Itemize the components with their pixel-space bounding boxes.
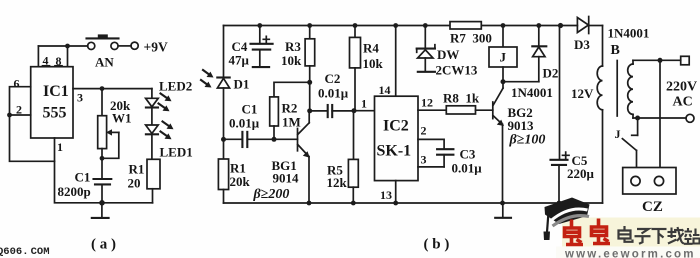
relay contact J switch xyxy=(615,118,638,168)
svg-text:10k: 10k xyxy=(363,56,384,71)
svg-text:Q606. COM: Q606. COM xyxy=(0,246,50,258)
wire W1 top xyxy=(101,89,103,116)
label 220V AC xyxy=(666,80,697,110)
node switch branch junction xyxy=(635,116,640,121)
svg-text:IC2: IC2 xyxy=(383,118,409,135)
svg-text:3: 3 xyxy=(77,91,83,105)
node R2/C1/base junction xyxy=(272,137,277,142)
node collector/C2 junction xyxy=(307,108,312,113)
capacitor C4 47u xyxy=(229,23,273,67)
svg-text:12V: 12V xyxy=(571,86,594,101)
svg-text:D2: D2 xyxy=(543,66,559,81)
capacitor C2 0.01u xyxy=(310,71,354,117)
CIRCUIT-B-MID xyxy=(327,22,578,206)
svg-text:6: 6 xyxy=(14,77,20,91)
svg-text:J: J xyxy=(615,127,621,141)
wire IC2 pin1 xyxy=(354,97,375,111)
svg-text:C1: C1 xyxy=(242,102,258,117)
wire W1 bottom xyxy=(101,149,103,179)
wire 220V top lead xyxy=(633,59,681,61)
svg-text:R4: R4 xyxy=(363,41,379,56)
LED LED2 xyxy=(146,79,193,125)
svg-text:555: 555 xyxy=(43,105,67,122)
resistor R1 20k (b) xyxy=(218,139,250,203)
wire IC2 pin3 xyxy=(418,153,444,167)
node BG2 emitter ground junction xyxy=(500,201,505,206)
svg-text:2CW13: 2CW13 xyxy=(436,63,478,78)
node R3 bottom junction xyxy=(307,80,312,85)
svg-text:R7 300: R7 300 xyxy=(450,31,492,46)
label (a) xyxy=(91,237,116,253)
svg-text:LED1: LED1 xyxy=(160,145,193,160)
svg-text:AN: AN xyxy=(95,55,114,70)
svg-text:1N4001: 1N4001 xyxy=(511,85,553,100)
node top rail junction (a) xyxy=(65,44,70,49)
svg-text:10k: 10k xyxy=(281,53,302,68)
node W1 wiper junction xyxy=(100,156,105,161)
wire bottom rail (b) xyxy=(224,202,603,204)
resistor R3 10k xyxy=(281,23,315,82)
svg-text:47μ: 47μ xyxy=(229,53,250,68)
svg-text:220V: 220V xyxy=(666,80,697,95)
resistor R8 1k xyxy=(443,91,493,115)
wire left rail down xyxy=(10,115,55,161)
svg-text:0.01μ: 0.01μ xyxy=(318,86,349,101)
LED1 light arrows xyxy=(161,122,174,140)
svg-text:CZ: CZ xyxy=(642,199,663,215)
svg-text:3: 3 xyxy=(421,153,427,167)
wire pin8 drop xyxy=(67,46,69,67)
svg-text:R3: R3 xyxy=(285,39,301,54)
wire LED branch top xyxy=(151,89,153,98)
svg-text:1M: 1M xyxy=(282,115,301,130)
wire top rail (b) left part xyxy=(224,25,453,27)
node pin13 rail junction xyxy=(393,201,398,206)
wire left edge drop to D1 xyxy=(223,26,225,78)
CIRCUIT-B-RIGHT xyxy=(424,17,698,253)
svg-text:1: 1 xyxy=(361,97,367,111)
svg-text:β≥200: β≥200 xyxy=(253,187,290,202)
wire pin6 xyxy=(10,77,31,116)
svg-text:1N4001: 1N4001 xyxy=(608,26,650,41)
wire button to terminal xyxy=(118,45,131,47)
terminal square 220V top xyxy=(681,56,690,65)
watermark strip background xyxy=(556,218,700,258)
svg-text:12k: 12k xyxy=(327,175,348,190)
watermark chongchong char1 xyxy=(565,220,584,245)
resistor R4 10k xyxy=(350,23,384,111)
watermark www.eeworm.com xyxy=(564,249,696,258)
CIRCUIT-B-LEFT xyxy=(201,23,603,205)
svg-text:W1: W1 xyxy=(112,111,132,126)
svg-text:2: 2 xyxy=(421,124,427,138)
svg-text:LED2: LED2 xyxy=(159,79,192,94)
svg-text:C1: C1 xyxy=(75,170,91,185)
svg-text:J: J xyxy=(500,50,507,65)
ground (a) xyxy=(92,203,109,218)
potentiometer W1 20k xyxy=(98,98,132,158)
terminal circle 220V bottom xyxy=(686,114,694,122)
svg-text:+9V: +9V xyxy=(144,40,168,55)
svg-text:SK-1: SK-1 xyxy=(377,143,412,160)
wire J junction to D2 xyxy=(503,81,539,83)
svg-text:β≥100: β≥100 xyxy=(509,133,546,148)
node R5 rail junction xyxy=(351,201,356,206)
wire top rail (a) xyxy=(38,45,87,47)
svg-text:20: 20 xyxy=(128,176,141,191)
node 220V top junction xyxy=(658,58,663,63)
svg-text:DW: DW xyxy=(437,47,459,62)
D1 light arrows xyxy=(201,70,214,88)
watermark char xia xyxy=(652,229,667,244)
svg-text:20k: 20k xyxy=(230,174,251,189)
relay coil J xyxy=(489,23,517,82)
wire R3 junction down to collector xyxy=(309,82,311,111)
wire pin1 xyxy=(55,138,153,203)
wire pin3 xyxy=(73,89,152,105)
terminal +9V xyxy=(131,40,168,55)
wire CZ right branch xyxy=(659,60,661,167)
svg-text:R1: R1 xyxy=(129,162,145,177)
pin 4 label xyxy=(43,54,50,68)
node R4/C2/R5/pin1 junction xyxy=(352,108,357,113)
resistor R7 300 xyxy=(450,22,492,46)
svg-text:14: 14 xyxy=(379,83,391,97)
resistor R5 12k xyxy=(327,111,359,203)
svg-text:13: 13 xyxy=(380,188,392,202)
svg-text:C2: C2 xyxy=(325,71,341,86)
wire top rail (b) right part xyxy=(481,25,577,27)
watermark Q606.COM xyxy=(0,246,50,258)
node C5 rail junction xyxy=(557,201,562,206)
capacitor C1 0.01u (b) xyxy=(224,102,298,148)
capacitor C5 220u xyxy=(551,26,595,204)
WATERMARKS xyxy=(544,198,700,258)
socket CZ xyxy=(623,168,676,216)
label (b) xyxy=(424,237,450,253)
pushbutton AN xyxy=(87,34,119,69)
svg-text:9013: 9013 xyxy=(508,118,535,133)
op-amp IC1 555 box xyxy=(31,67,73,138)
transformer secondary 220V xyxy=(628,60,633,118)
wire 220V bottom lead xyxy=(633,117,686,119)
LED LED1 xyxy=(146,125,193,160)
svg-text:IC1: IC1 xyxy=(43,83,69,100)
diode D2 1N4001 xyxy=(511,23,558,100)
svg-text:www.eeworm.com: www.eeworm.com xyxy=(564,249,696,258)
wire IC2 pin14 xyxy=(379,23,399,97)
wire pin2 xyxy=(10,103,31,117)
resistor R2 1M xyxy=(270,97,301,139)
CIRCUIT-A xyxy=(0,34,193,258)
svg-text:R2: R2 xyxy=(282,101,298,116)
wire IC2 pin2 xyxy=(418,124,444,150)
watermark char zhan xyxy=(684,228,700,244)
svg-text:( a ): ( a ) xyxy=(91,237,116,253)
svg-text:2: 2 xyxy=(16,103,22,117)
wire IC2 pin13 xyxy=(380,181,396,203)
svg-text:B: B xyxy=(611,43,620,58)
node pin2 left junction xyxy=(7,113,12,118)
svg-text:220μ: 220μ xyxy=(567,166,595,181)
watermark char dian xyxy=(619,226,633,242)
svg-text:C3: C3 xyxy=(460,147,476,162)
svg-text:D1: D1 xyxy=(234,77,250,92)
watermark graduation cap xyxy=(544,198,590,241)
watermark char zai xyxy=(668,227,685,244)
wire pin4 drop xyxy=(37,46,39,67)
svg-text:( b ): ( b ) xyxy=(424,237,450,253)
svg-text:AC: AC xyxy=(673,95,693,110)
resistor R1 20 (a) xyxy=(128,159,161,203)
node BG1 emitter rail junction xyxy=(307,201,312,206)
svg-text:12: 12 xyxy=(421,96,433,110)
svg-text:8200p: 8200p xyxy=(58,184,91,199)
wire R3 junction to R2 xyxy=(274,82,310,97)
op-amp IC2 SK-1 box xyxy=(375,96,419,180)
svg-text:1: 1 xyxy=(57,140,63,154)
node pin3 junction xyxy=(100,86,105,91)
node J bottom junction xyxy=(501,79,506,84)
node D1/C1/R1 junction xyxy=(221,137,226,142)
wire IC2 pin12 xyxy=(418,96,446,111)
svg-text:0.01μ: 0.01μ xyxy=(452,161,483,176)
svg-text:R8 1k: R8 1k xyxy=(443,91,480,106)
watermark char zi xyxy=(635,229,651,244)
transistor BG2 9013 xyxy=(493,82,546,203)
transformer core xyxy=(616,61,618,117)
zener DW 2CW13 xyxy=(417,23,478,77)
watermark chongchong char2 xyxy=(592,219,611,244)
capacitor C3 0.01u xyxy=(437,147,482,176)
node C1 rail junction xyxy=(99,200,105,206)
transistor BG1 9014 xyxy=(253,111,310,203)
svg-text:D3: D3 xyxy=(574,37,590,52)
capacitor C1 8200p xyxy=(58,170,112,203)
photodiode D1 xyxy=(217,77,249,140)
transformer B primary 12V xyxy=(571,26,620,204)
diode D3 1N4001 xyxy=(558,17,649,53)
svg-text:9014: 9014 xyxy=(273,171,300,186)
ground (b) xyxy=(495,203,511,218)
LED2 light arrows xyxy=(159,94,172,112)
svg-text:0.01μ: 0.01μ xyxy=(229,116,260,131)
pin 8 label xyxy=(55,54,62,68)
